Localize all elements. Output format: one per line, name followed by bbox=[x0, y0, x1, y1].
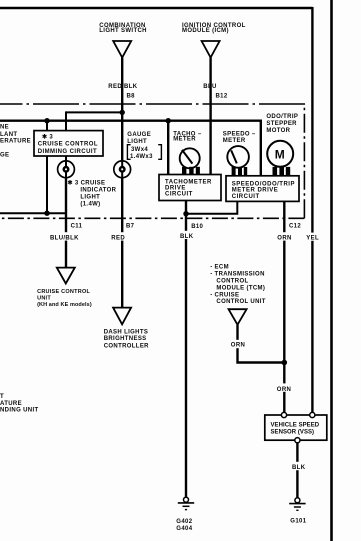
wire RED/BLK B8 vertical bbox=[121, 58, 123, 162]
svg-text:METER: METER bbox=[173, 137, 196, 143]
ignition control module label bbox=[182, 23, 246, 34]
svg-text:✱ 3: ✱ 3 bbox=[42, 133, 53, 140]
svg-text:G402: G402 bbox=[176, 519, 192, 525]
label YEL bbox=[305, 233, 322, 242]
svg-text:ORN: ORN bbox=[231, 343, 245, 349]
svg-text:B8: B8 bbox=[127, 94, 136, 100]
wire dimming box lower-left pin down bbox=[46, 156, 48, 213]
svg-text:SENSOR (VSS): SENSOR (VSS) bbox=[271, 430, 315, 436]
svg-text:(1.4W): (1.4W) bbox=[80, 202, 100, 208]
svg-text:3Wx4: 3Wx4 bbox=[131, 147, 148, 153]
wire VSS BLK to ground bbox=[296, 443, 298, 498]
svg-text:GE: GE bbox=[0, 152, 9, 158]
svg-text:MODULE (TCM): MODULE (TCM) bbox=[216, 285, 265, 291]
svg-text:ERATURE: ERATURE bbox=[0, 139, 31, 145]
dash lights brightness controller label bbox=[104, 329, 149, 349]
gauge assembly dashed box: right edge bbox=[303, 104, 305, 218]
label ORN above VSS bbox=[276, 383, 294, 392]
speedometer terminal hatching bbox=[232, 167, 248, 176]
svg-text:C11: C11 bbox=[71, 224, 83, 230]
wire branch to speedo drive circuit ground bbox=[186, 201, 237, 213]
svg-text:LIGHT: LIGHT bbox=[80, 194, 100, 200]
wire cruise indicator C11 BLU/BLK bbox=[65, 178, 67, 268]
svg-text:BRIGHTNESS: BRIGHTNESS bbox=[104, 336, 147, 342]
svg-text:- CRUISE: - CRUISE bbox=[210, 292, 239, 298]
svg-text:BLK: BLK bbox=[180, 234, 194, 240]
junction dot bus to dimming box bbox=[44, 118, 49, 123]
arrow to cruise control unit bbox=[57, 268, 75, 284]
wire gauge light B7 RED bbox=[121, 178, 123, 308]
wire branch vertical into dimming box bbox=[65, 111, 67, 130]
svg-text:GAUGE: GAUGE bbox=[127, 132, 151, 138]
gauge light bulb bbox=[114, 161, 131, 178]
speedo/odo/trip meter drive circuit box bbox=[226, 176, 299, 202]
tachometer terminal hatching bbox=[182, 167, 200, 175]
vehicle speed sensor box bbox=[265, 415, 327, 440]
svg-text:ODO/TRIP: ODO/TRIP bbox=[266, 114, 298, 120]
gauge light label bbox=[127, 132, 151, 145]
ecm/tcm/cruise list label bbox=[210, 264, 266, 305]
svg-text:DASH LIGHTS: DASH LIGHTS bbox=[104, 329, 149, 335]
gauge assembly dashed box: top edge bbox=[0, 103, 305, 105]
svg-text:STEPPER: STEPPER bbox=[266, 121, 297, 127]
svg-text:DRIVE: DRIVE bbox=[165, 186, 186, 192]
svg-text:G404: G404 bbox=[176, 526, 192, 532]
svg-text:CONTROLLER: CONTROLLER bbox=[104, 343, 149, 349]
junction dot ORN to VSS bbox=[282, 360, 288, 366]
svg-text:RED: RED bbox=[111, 235, 125, 241]
VSS terminal circle left bbox=[281, 412, 286, 417]
coolant temperature sending unit cut text bbox=[0, 394, 39, 413]
label BLK bbox=[179, 231, 197, 240]
ground G101 bbox=[289, 498, 305, 511]
svg-text:B12: B12 bbox=[216, 94, 228, 100]
arrow to ecm/tcm/cruise control unit bbox=[229, 309, 247, 325]
svg-text:METER DRIVE: METER DRIVE bbox=[232, 188, 279, 194]
svg-text:ORN: ORN bbox=[277, 387, 291, 393]
wire tachometer output B10/BLK bbox=[185, 201, 187, 498]
wire YEL wrap-around: right vertical down to VSS bbox=[311, 7, 313, 413]
tachometer label bbox=[173, 132, 202, 143]
junction dot at B8 branch bbox=[120, 110, 125, 115]
svg-text:SPEEDO/ODO/TRIP: SPEEDO/ODO/TRIP bbox=[232, 181, 295, 187]
gauge assembly dashed box: bottom edge bbox=[0, 217, 304, 219]
svg-text:YEL: YEL bbox=[306, 236, 319, 242]
wire BLU B12 vertical bbox=[209, 58, 211, 175]
svg-text:CIRCUIT: CIRCUIT bbox=[165, 192, 193, 198]
wire from off-page left to C11 node bbox=[0, 212, 67, 214]
svg-text:UNIT: UNIT bbox=[37, 295, 51, 301]
engine coolant temperature gauge cut text bbox=[0, 125, 31, 159]
svg-text:LIGHT SWITCH: LIGHT SWITCH bbox=[99, 28, 147, 34]
svg-text:METER: METER bbox=[223, 138, 246, 144]
svg-text:VEHICLE SPEED: VEHICLE SPEED bbox=[271, 422, 320, 428]
svg-text:CRUISE CONTROL: CRUISE CONTROL bbox=[37, 289, 90, 295]
wire speedo output ORN bbox=[283, 201, 285, 412]
bracket box wattage values bbox=[127, 145, 161, 161]
svg-text:MOTOR: MOTOR bbox=[266, 128, 290, 134]
wire bus drop into tachometer drive circuit bbox=[167, 121, 169, 175]
svg-text:BLU/BLK: BLU/BLK bbox=[50, 235, 79, 241]
svg-text:- TRANSMISSION: - TRANSMISSION bbox=[210, 272, 265, 278]
svg-text:(KH and KE models): (KH and KE models) bbox=[37, 302, 92, 308]
VSS terminal circle bottom bbox=[295, 438, 300, 443]
svg-text:ORN: ORN bbox=[277, 235, 291, 241]
svg-text:CIRCUIT: CIRCUIT bbox=[232, 194, 260, 200]
svg-text:C12: C12 bbox=[289, 223, 301, 229]
wire YEL wrap-around: horizontal top segment bbox=[0, 7, 313, 9]
svg-text:T: T bbox=[0, 394, 4, 400]
svg-text:M: M bbox=[275, 147, 285, 161]
speedometer gauge face bbox=[227, 146, 249, 168]
wire bus drop into dimming box bbox=[46, 121, 48, 131]
svg-text:B10: B10 bbox=[191, 224, 203, 230]
VSS terminal circle right bbox=[310, 412, 315, 417]
speedometer label bbox=[223, 131, 256, 144]
svg-text:BLK: BLK bbox=[292, 465, 306, 471]
svg-text:1.4Wx3: 1.4Wx3 bbox=[130, 154, 153, 160]
svg-text:DIMMING CIRCUIT: DIMMING CIRCUIT bbox=[38, 149, 97, 155]
svg-text:CONTROL: CONTROL bbox=[216, 278, 248, 284]
svg-text:NDING UNIT: NDING UNIT bbox=[0, 408, 39, 414]
svg-text:NE: NE bbox=[0, 125, 9, 131]
wire branch to dimming circuit (horizontal at y112) bbox=[66, 111, 122, 113]
svg-text:LIGHT: LIGHT bbox=[127, 139, 147, 145]
arrow to dash lights brightness controller bbox=[113, 308, 131, 325]
svg-text:B7: B7 bbox=[126, 224, 135, 230]
illumination bus wire bbox=[0, 121, 261, 176]
ground G402/G404 bbox=[178, 497, 194, 509]
label ORN on ecm branch bbox=[229, 340, 247, 349]
svg-text:LANT: LANT bbox=[0, 132, 17, 138]
odo/trip stepper motor M bbox=[267, 141, 293, 167]
svg-text:BLU: BLU bbox=[203, 84, 216, 90]
label BLU/BLK bbox=[49, 232, 91, 241]
svg-text:ATURE: ATURE bbox=[0, 401, 22, 407]
motor terminal hatching bbox=[273, 167, 291, 176]
tachometer drive circuit box bbox=[159, 175, 221, 201]
junction dot B10 branch bbox=[183, 211, 188, 216]
cruise indicator light bulb bbox=[58, 156, 75, 178]
label RED bbox=[110, 232, 126, 241]
svg-text:G101: G101 bbox=[290, 519, 306, 525]
svg-text:SPEEDO –: SPEEDO – bbox=[223, 131, 256, 137]
svg-text:- ECM: - ECM bbox=[210, 264, 229, 270]
svg-text:TACHOMETER: TACHOMETER bbox=[165, 179, 212, 185]
junction dot below dimming box bbox=[44, 211, 49, 216]
wire right-edge pass-through bbox=[330, 0, 333, 541]
junction dot bus to tachometer drive bbox=[166, 118, 171, 123]
cruise control unit label bbox=[37, 289, 92, 308]
odo/trip stepper motor label bbox=[266, 114, 298, 134]
label G402 G404 bbox=[176, 519, 192, 532]
svg-text:CRUISE CONTROL: CRUISE CONTROL bbox=[38, 142, 98, 148]
svg-text:RED/BLK: RED/BLK bbox=[108, 84, 137, 90]
cruise indicator light label bbox=[68, 180, 117, 208]
arrow from combination light switch bbox=[113, 41, 131, 58]
svg-text:✱ 3 CRUISE: ✱ 3 CRUISE bbox=[68, 180, 106, 187]
arrow from ignition control module bbox=[202, 41, 220, 58]
cruise control dimming circuit box bbox=[34, 131, 103, 156]
svg-text:INDICATOR: INDICATOR bbox=[80, 187, 116, 193]
svg-text:MODULE (ICM): MODULE (ICM) bbox=[182, 28, 229, 34]
label BLK under VSS bbox=[291, 462, 309, 471]
wire ecm branch ORN bbox=[238, 325, 285, 363]
combination light switch label bbox=[99, 23, 147, 34]
tachometer gauge face bbox=[180, 148, 200, 168]
label ORN bbox=[276, 232, 294, 241]
svg-text:CONTROL UNIT: CONTROL UNIT bbox=[216, 299, 265, 305]
